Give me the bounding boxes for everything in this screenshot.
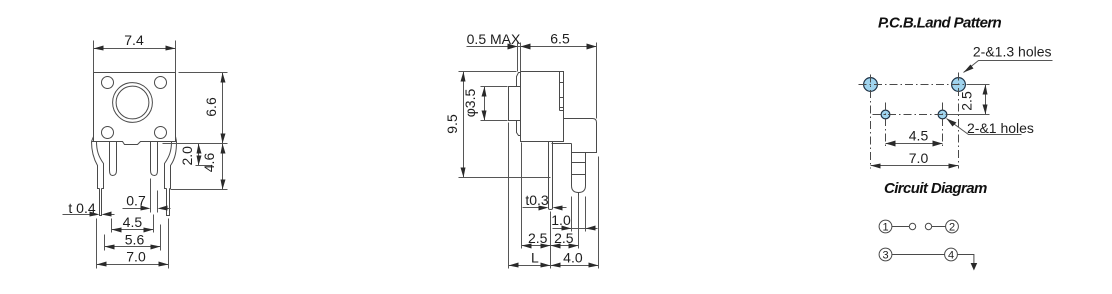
button inner circle: [116, 86, 149, 119]
dimension 4.5: [112, 214, 154, 233]
inner right terminal: [151, 142, 158, 176]
svg-text:t 0.4: t 0.4: [68, 200, 95, 216]
terminal 3: [879, 248, 892, 261]
svg-text:1: 1: [882, 222, 888, 234]
dimension t0.3: [523, 192, 567, 211]
center line vertical hole D: [942, 103, 944, 147]
bracket arm: [564, 119, 597, 153]
body: [521, 72, 564, 142]
svg-text:2-&1 holes: 2-&1 holes: [967, 120, 1034, 136]
dimension phi 3.5: [462, 87, 507, 121]
peg center tick: [578, 193, 580, 200]
dimension 4.5: [886, 128, 943, 147]
contact b: [925, 223, 931, 229]
center line vertical hole C: [885, 103, 887, 147]
hole 1.3 right: [952, 78, 966, 92]
body bottom-left chamfer: [92, 137, 94, 142]
wire 3 to 4: [892, 254, 945, 256]
peg cross line 1: [572, 152, 586, 154]
outer right leg pin t0.4: [167, 189, 170, 216]
leader 2-&1 holes: [947, 119, 1034, 136]
dimension 5.6: [105, 225, 161, 251]
switch body outline: [94, 73, 176, 142]
hole 1.3 left: [864, 78, 878, 92]
svg-text:4.5: 4.5: [123, 214, 143, 230]
CIRCUIT DIAGRAM: [879, 180, 987, 271]
support peg: [572, 144, 586, 193]
rear clip inner edge: [559, 72, 561, 111]
svg-text:2.5: 2.5: [528, 230, 548, 246]
bracket underside: [552, 143, 572, 145]
corner rivet top-left: [102, 77, 114, 89]
inner left terminal: [110, 142, 117, 176]
dimension t0.4: [63, 200, 115, 217]
svg-text:P.C.B.Land Pattern: P.C.B.Land Pattern: [878, 15, 1002, 32]
rear clip ticks: [560, 83, 564, 111]
center line vertical hole B: [958, 73, 960, 169]
dimension 2.0: [179, 144, 213, 166]
svg-text:L: L: [531, 250, 539, 266]
dimension 4.6: [171, 144, 228, 190]
dimension 0.5 MAX and 6.5: [467, 31, 597, 119]
svg-text:2.0: 2.0: [179, 146, 195, 166]
svg-text:7.0: 7.0: [909, 150, 929, 166]
svg-text:0.5 MAX: 0.5 MAX: [467, 31, 521, 47]
outer right leg: [165, 142, 177, 189]
dimension 0.7: [123, 179, 171, 213]
peg cross line 2: [572, 162, 586, 164]
FRONT VIEW: [63, 32, 228, 269]
terminal 4: [945, 248, 958, 261]
svg-text:7.0: 7.0: [126, 248, 146, 264]
hole 1.0 right: [938, 110, 947, 119]
svg-text:2.5: 2.5: [959, 91, 975, 111]
dimension 6.6: [163, 73, 228, 144]
outer left leg: [92, 142, 104, 189]
center line horizontal row1: [859, 84, 973, 86]
PCB LAND PATTERN: [859, 15, 1053, 169]
center line horizontal row2: [873, 114, 957, 116]
wire contact to 2: [932, 226, 946, 228]
svg-text:4.5: 4.5: [909, 128, 929, 144]
terminal 2: [946, 220, 959, 233]
svg-text:4: 4: [948, 250, 954, 262]
svg-text:2-&1.3 holes: 2-&1.3 holes: [973, 44, 1052, 60]
svg-text:9.5: 9.5: [444, 114, 460, 134]
corner rivet bottom-right: [155, 127, 167, 139]
wire 1 to contact: [892, 226, 910, 228]
hole 1.0 left: [881, 110, 890, 119]
terminal 1: [879, 220, 892, 233]
dimension 1.0: [551, 197, 597, 232]
corner rivet top-right: [155, 77, 167, 89]
svg-text:6.6: 6.6: [203, 97, 219, 117]
svg-text:Circuit Diagram: Circuit Diagram: [884, 180, 987, 197]
svg-text:6.5: 6.5: [550, 31, 570, 47]
plunger top shoulder tab: [517, 73, 521, 87]
svg-text:4.0: 4.0: [563, 250, 583, 266]
wire 4 to ground: [958, 255, 974, 264]
button outer circle: [113, 83, 153, 123]
svg-text:2: 2: [949, 222, 955, 234]
svg-text:2.5: 2.5: [554, 230, 574, 246]
svg-text:φ3.5: φ3.5: [462, 89, 478, 118]
dimension 2.5 vertical: [948, 85, 990, 115]
svg-text:1.0: 1.0: [551, 212, 571, 228]
svg-text:4.6: 4.6: [201, 153, 217, 173]
svg-text:0.7: 0.7: [126, 193, 146, 209]
corner rivet bottom-left: [102, 127, 114, 139]
svg-text:t0.3: t0.3: [525, 192, 549, 208]
body bottom edge with center tab: [92, 142, 177, 145]
SIDE VIEW: [444, 31, 598, 269]
outer left leg pin t0.4: [100, 189, 102, 216]
svg-text:7.4: 7.4: [124, 32, 144, 48]
svg-text:5.6: 5.6: [125, 231, 145, 247]
leader 2-&1.3 holes: [964, 44, 1053, 73]
dimension 7.4: [94, 32, 176, 73]
dimension 9.5: [444, 72, 550, 178]
plunger: [509, 87, 521, 121]
dimension 7.0: [871, 150, 959, 169]
dimension L / 4.0: [509, 123, 599, 269]
body bottom-right chamfer: [176, 137, 177, 142]
peg cross line 3: [572, 174, 586, 176]
contact lead t0.3: [549, 142, 553, 210]
ground arrow: [971, 263, 978, 271]
plunger bottom shoulder tab: [517, 121, 521, 136]
dimension 2.5 / 2.5: [522, 143, 579, 269]
svg-text:3: 3: [882, 250, 888, 262]
center line vertical hole A: [870, 75, 872, 169]
dimension 7.0: [97, 219, 169, 269]
contact a: [909, 223, 915, 229]
